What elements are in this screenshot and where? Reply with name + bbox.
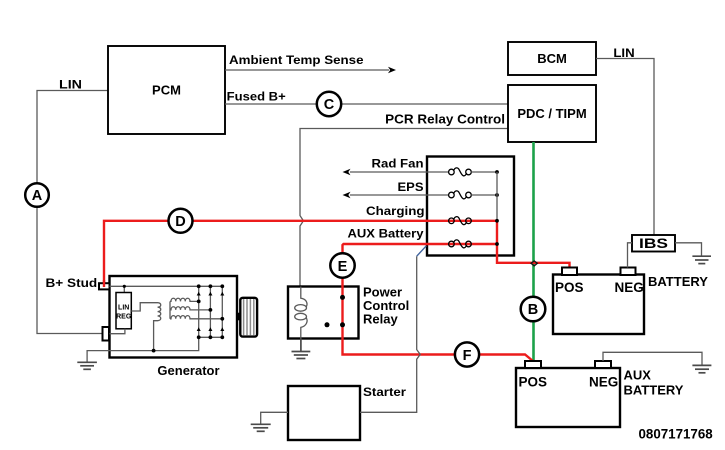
power control relay K1: [288, 287, 359, 339]
wire red D stub into stud: [103, 280, 105, 287]
wire bus black rows1-3: [496, 172, 498, 221]
svg-text:C: C: [324, 97, 335, 113]
svg-text:LIN: LIN: [59, 78, 82, 92]
wire LIN from BCM to IBS: [596, 59, 654, 236]
stator coil phase 2: [170, 307, 210, 310]
wire AUX NEG to ground: [603, 352, 702, 365]
circle C: [317, 92, 341, 116]
svg-text:F: F: [463, 348, 472, 364]
svg-text:Generator: Generator: [157, 363, 219, 378]
relay terminal dot bottom: [340, 322, 345, 327]
stator coil phase 1: [170, 298, 199, 301]
PCM U1: [108, 46, 225, 134]
wire green PDC/TIPM to AUX battery POS: [532, 142, 535, 362]
svg-text:POS: POS: [555, 280, 584, 295]
battery B1: [553, 275, 644, 335]
crossover diamond red over green: [531, 261, 537, 266]
circle F: [455, 342, 479, 366]
terminal battery POS: [562, 268, 577, 276]
diode D5: [208, 327, 212, 331]
relay terminal dot top: [340, 295, 345, 300]
wire generator ground run: [87, 337, 199, 362]
generator G1: [110, 276, 238, 358]
svg-text:PCM: PCM: [152, 83, 181, 98]
wire starter to AUX battery fuse (with hop): [360, 256, 420, 412]
junction dot field coil bottom: [152, 349, 156, 353]
svg-text:PDC / TIPM: PDC / TIPM: [517, 106, 586, 121]
junction dot leg3 bottom: [220, 335, 224, 339]
fuse F4 AUX Battery: [449, 240, 472, 248]
wire rectifier bottom bus: [199, 336, 223, 338]
diode D1: [197, 292, 201, 296]
wire IBS to ground: [675, 243, 702, 256]
starter M1: [288, 386, 360, 440]
svg-text:A: A: [32, 188, 43, 204]
terminal AUX NEG: [595, 361, 611, 368]
svg-text:EPS: EPS: [398, 180, 424, 194]
circle B: [521, 297, 546, 322]
svg-text:D: D: [175, 214, 185, 230]
svg-text:IBS: IBS: [639, 236, 668, 251]
relay coil: [295, 287, 307, 339]
circle A: [25, 183, 49, 207]
ground relay: [292, 339, 311, 359]
svg-text:Rad Fan: Rad Fan: [372, 157, 424, 171]
junction dot phase2 leg: [209, 308, 213, 312]
rectifier leg 1: [198, 286, 200, 337]
svg-text:0807171768: 0807171768: [639, 425, 713, 441]
wire fuse F1 to bus: [471, 171, 497, 173]
wire LIN REG top: [123, 286, 125, 292]
node Power Control Relay label: [363, 285, 409, 327]
diode D3: [220, 292, 224, 296]
pulley: [240, 298, 257, 337]
ground IBS: [692, 256, 711, 263]
wire LIN from PCM to generator LIN terminal: [37, 91, 108, 334]
fuse F3 Charging: [449, 217, 472, 225]
svg-text:PCR Relay Control: PCR Relay Control: [385, 112, 505, 127]
diode D6: [220, 327, 224, 331]
wire EPS (arrow left): [343, 192, 449, 199]
terminal battery NEG: [621, 268, 636, 276]
junction dot leg2 top: [209, 284, 213, 288]
svg-text:LIN: LIN: [613, 46, 634, 60]
voltage regulator LIN REG: [116, 293, 132, 329]
wire Ambient Temp Sense (arrow right): [225, 67, 396, 74]
ground generator: [77, 362, 97, 369]
wire starter to ground: [261, 412, 288, 424]
relay terminal dot middle: [325, 322, 330, 327]
stator coil left link: [169, 301, 171, 318]
junction dot phase3 leg: [220, 317, 224, 321]
junction dot row3: [495, 219, 499, 223]
wire Rad Fan (arrow left): [343, 169, 449, 176]
svg-text:Fused B+: Fused B+: [227, 90, 286, 104]
svg-text:AUX: AUX: [624, 368, 652, 383]
node AUX BATTERY label: [624, 368, 684, 398]
svg-text:E: E: [338, 259, 348, 275]
junction dot LIN REG top: [123, 285, 126, 288]
wire red bus row3 to row4 and down to battery feed: [497, 221, 570, 271]
junction dot phase1 leg: [197, 300, 201, 304]
ground starter: [251, 424, 271, 431]
wire IBS to battery NEG: [628, 243, 633, 268]
junction dot row1: [495, 170, 499, 174]
junction dot leg3 top: [220, 284, 224, 288]
wire red AUX battery row: fuse F4 to relay and F to aux POS: [343, 244, 534, 362]
svg-text:BATTERY: BATTERY: [624, 383, 684, 398]
rectifier leg 3: [221, 286, 223, 337]
diode D4: [197, 327, 201, 331]
rectifier leg 2: [209, 286, 211, 337]
svg-text:REG: REG: [116, 313, 132, 320]
svg-text:B: B: [528, 302, 538, 318]
terminal B+ stud: [99, 283, 110, 289]
ground AUX battery: [692, 365, 711, 372]
svg-text:NEG: NEG: [615, 280, 644, 295]
svg-text:NEG: NEG: [589, 374, 618, 389]
wire generator B+ bus: [110, 285, 223, 287]
diode D2: [208, 292, 212, 296]
wire PCR Relay Control from PDC/TIPM to relay coil: [300, 129, 508, 287]
AUX battery B2: [516, 368, 620, 427]
svg-text:B+ Stud: B+ Stud: [46, 276, 98, 290]
wire fuse F2 to bus: [471, 194, 497, 196]
junction dot leg1 top: [197, 284, 201, 288]
fuse F2 EPS: [449, 191, 472, 199]
terminal AUX POS: [525, 361, 541, 368]
wire red D charging: B+ stud to fuse F3: [104, 221, 497, 287]
junction dot leg1 bottom: [197, 335, 201, 339]
svg-text:Starter: Starter: [363, 385, 406, 399]
terminal LIN: [103, 327, 110, 341]
wire Fused B+ from PCM to PDC/TIPM: [225, 103, 508, 105]
pulley tab: [237, 313, 241, 321]
svg-text:AUX Battery: AUX Battery: [348, 227, 424, 241]
junction dot row4: [495, 242, 499, 246]
fuse box PDC fuse block: [427, 157, 514, 256]
stator coil phase 3: [170, 316, 222, 319]
svg-text:Charging: Charging: [366, 204, 425, 218]
wire blue link to fuse box: [417, 246, 427, 256]
fuse F1 Rad Fan: [449, 168, 472, 176]
svg-text:LIN: LIN: [118, 305, 129, 312]
junction dot row2: [495, 193, 499, 197]
junction dot leg2 bottom: [209, 335, 213, 339]
field coil L1: [153, 303, 161, 351]
svg-text:BATTERY: BATTERY: [648, 274, 708, 289]
PDC / TIPM U3: [508, 85, 596, 142]
IBS module: [632, 235, 675, 252]
wire LIN REG to field coil: [131, 303, 153, 311]
svg-text:Relay: Relay: [363, 312, 398, 327]
circle D: [169, 209, 193, 233]
svg-text:Ambient Temp Sense: Ambient Temp Sense: [229, 53, 364, 67]
BCM U2: [508, 42, 596, 75]
svg-text:BCM: BCM: [537, 51, 567, 66]
svg-text:POS: POS: [519, 374, 548, 389]
wire LIN terminal to LIN REG: [110, 329, 125, 334]
circle E: [330, 253, 354, 277]
